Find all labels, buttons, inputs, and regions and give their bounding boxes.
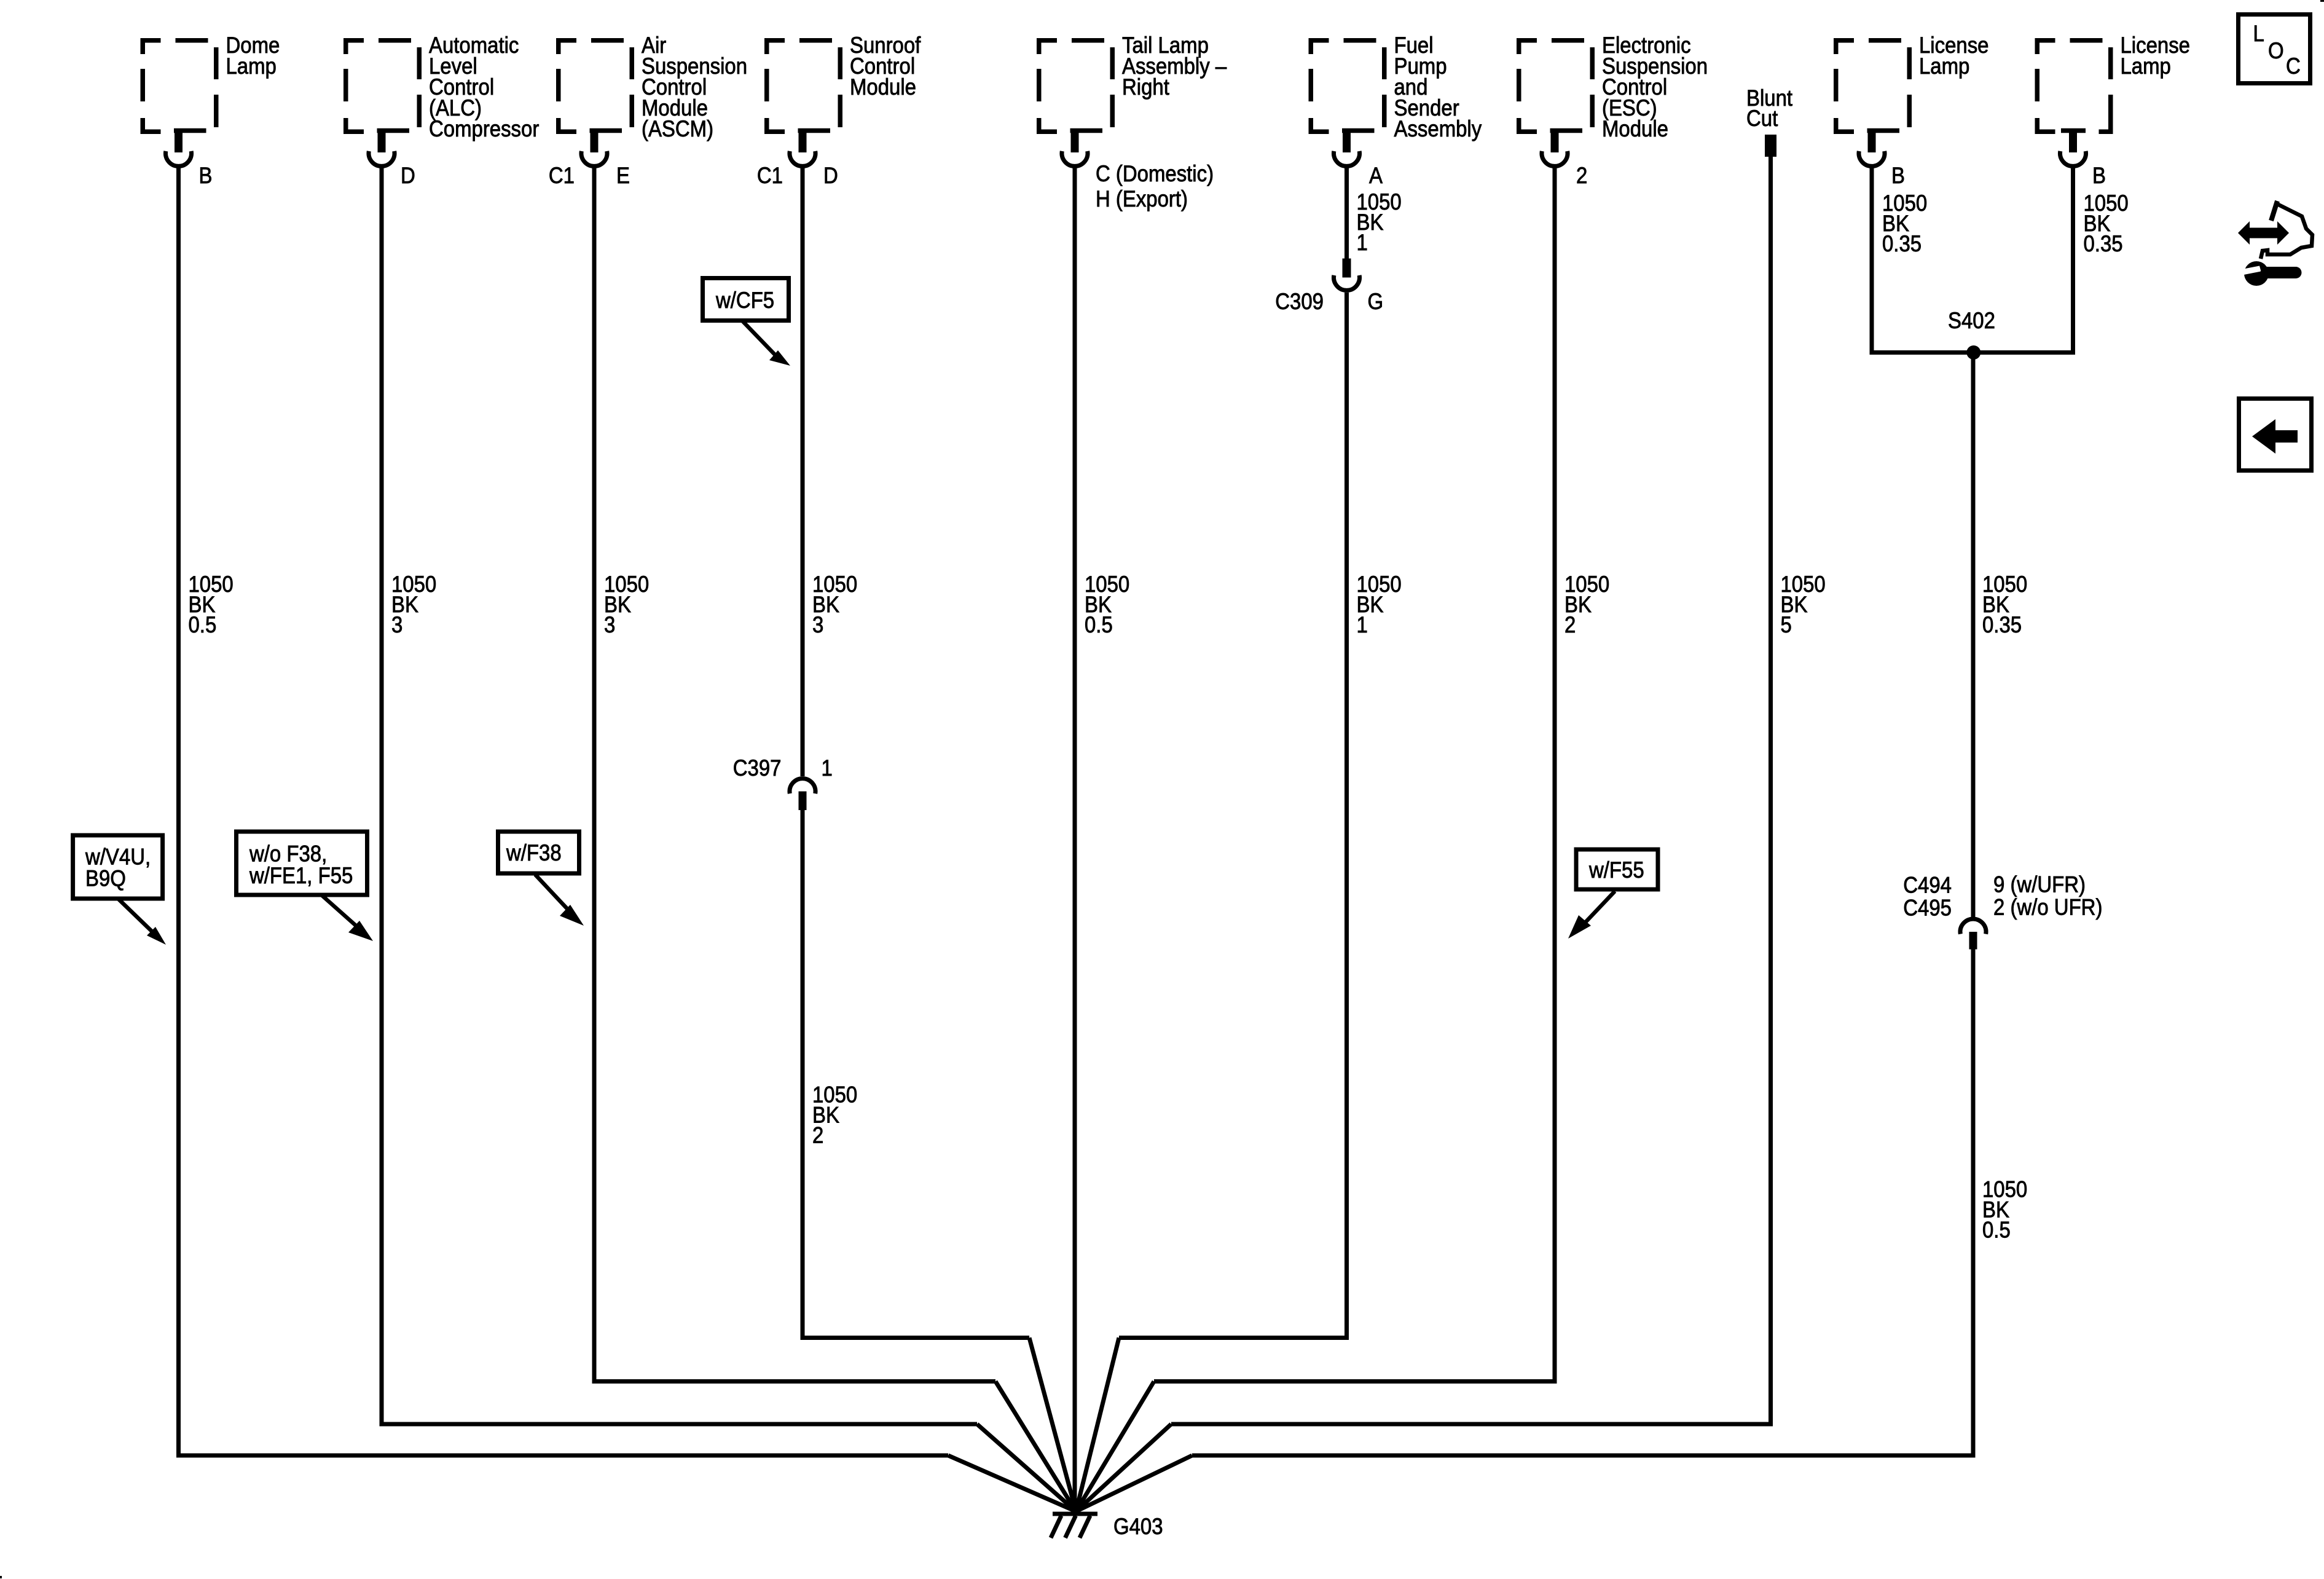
svg-text:2: 2 — [1564, 612, 1576, 637]
svg-text:C495: C495 — [1903, 896, 1952, 921]
svg-text:2: 2 — [812, 1123, 823, 1148]
svg-text:B: B — [1891, 163, 1905, 188]
component box Dome Lamp — [143, 33, 280, 132]
wire 1050 BK 2 from ESC Module to G403 — [1076, 167, 1609, 1511]
svg-text:C397: C397 — [733, 755, 782, 781]
svg-text:1: 1 — [1357, 612, 1368, 637]
wire 1050 BK 3 from ALC Compressor to G403 — [380, 167, 1077, 1511]
wire 1050 BK 1 from C309 to G403 — [1076, 293, 1402, 1511]
wire 1050 BK 3 from ASCM to G403 — [592, 167, 1077, 1511]
inline connector C397 pin 1 — [733, 755, 833, 810]
svg-text:G: G — [1368, 289, 1384, 314]
svg-text:Lamp: Lamp — [2121, 53, 2171, 79]
component box Tail Lamp Assembly - Right — [1039, 33, 1227, 132]
svg-text:C309: C309 — [1275, 289, 1324, 314]
svg-text:0.5: 0.5 — [189, 612, 217, 637]
svg-text:B: B — [199, 163, 213, 188]
svg-text:S402: S402 — [1948, 308, 1995, 333]
svg-text:w/F38: w/F38 — [506, 840, 562, 865]
connector pin D of ALC Compressor — [369, 128, 415, 188]
svg-text:2 (w/o UFR): 2 (w/o UFR) — [1993, 895, 2102, 920]
legend icon back arrow box — [2239, 399, 2312, 471]
svg-text:C1: C1 — [549, 163, 575, 188]
svg-text:D: D — [823, 163, 838, 188]
svg-text:C494: C494 — [1903, 873, 1952, 898]
svg-text:2: 2 — [1576, 163, 1587, 188]
svg-text:C: C — [2286, 53, 2301, 79]
wire 1050 BK 0.5 from Dome Lamp to G403 — [176, 167, 1076, 1511]
svg-text:A: A — [1369, 163, 1383, 188]
svg-text:Module: Module — [1602, 116, 1668, 141]
svg-text:1: 1 — [822, 755, 833, 781]
svg-text:9 (w/UFR): 9 (w/UFR) — [1993, 872, 2086, 897]
wire 1050 BK 0.35 from License Lamp (left) to S402 — [1872, 167, 1927, 355]
component box Electronic Suspension Control (ESC) Module — [1519, 33, 1708, 141]
svg-text:0.5: 0.5 — [1982, 1218, 2011, 1243]
svg-text:0.35: 0.35 — [1882, 231, 1922, 256]
svg-text:3: 3 — [391, 612, 402, 637]
component box Automatic Level Control (ALC) Compressor — [346, 33, 540, 141]
option flag w/F38 — [498, 832, 584, 926]
svg-text:0.35: 0.35 — [2084, 231, 2123, 256]
svg-text:0.5: 0.5 — [1085, 612, 1113, 637]
svg-text:Cut: Cut — [1746, 106, 1778, 131]
component box Air Suspension Control Module (ASCM) — [559, 33, 747, 141]
connector pin B of Dome Lamp — [166, 128, 213, 188]
svg-text:1: 1 — [1357, 230, 1368, 255]
connector C1 pin D of Sunroof Control Module — [757, 128, 838, 188]
svg-text:G403: G403 — [1113, 1514, 1163, 1539]
svg-text:Right: Right — [1122, 74, 1169, 100]
wire 1050 BK 1 from Fuel Pump to C309 — [1347, 167, 1402, 259]
option flag w/F55 — [1568, 849, 1658, 939]
connector pin A of Fuel Pump and Sender Assembly — [1334, 128, 1383, 188]
svg-text:Lamp: Lamp — [1919, 53, 1969, 79]
svg-text:B: B — [2092, 163, 2106, 188]
component box License Lamp (right) — [2037, 33, 2190, 132]
svg-text:B9Q: B9Q — [85, 866, 126, 891]
option flag w/V4U, B9Q — [73, 835, 166, 945]
svg-text:0.35: 0.35 — [1982, 612, 2022, 637]
legend icon body repair (double arrow, panel outline, wrench) — [2238, 201, 2312, 286]
svg-text:C1: C1 — [757, 163, 783, 188]
svg-text:E: E — [616, 163, 630, 188]
inline connector C494/C495 pin 9 (w/UFR) / 2 (w/o UFR) — [1903, 872, 2102, 950]
svg-text:D: D — [401, 163, 415, 188]
svg-text:L: L — [2253, 21, 2264, 46]
svg-text:H (Export): H (Export) — [1096, 186, 1188, 211]
connector C1 pin E of ASCM — [549, 128, 630, 188]
svg-text:Module: Module — [850, 74, 916, 100]
option flag w/o F38, w/FE1, F55 — [237, 832, 374, 941]
svg-text:Compressor: Compressor — [429, 116, 540, 141]
legend icon LOC box — [2239, 15, 2310, 84]
wire 1050 BK 5 from blunt cut to G403 — [1076, 157, 1826, 1511]
splice S402 — [1870, 308, 2076, 360]
option flag w/CF5 — [703, 278, 791, 366]
connector pin B of License Lamp (right) — [2060, 128, 2106, 188]
wire 1050 BK 0.35 from License Lamp (right) to S402 — [2073, 167, 2129, 355]
wire 1050 BK 2 from C397 to G403 — [801, 810, 1077, 1511]
svg-text:Assembly: Assembly — [1394, 116, 1482, 141]
ground G403 — [1051, 1514, 1163, 1539]
svg-text:3: 3 — [604, 612, 615, 637]
connector pin 2 of ESC Module — [1542, 128, 1587, 188]
blunt cut terminal — [1746, 85, 1792, 157]
connector pin B of License Lamp (left) — [1859, 128, 1905, 188]
component box License Lamp (left) — [1836, 33, 1989, 132]
wire 1050 BK 3 from Sunroof Control Module to C397 — [803, 167, 857, 776]
wire 1050 BK 0.5 from C494/C495 to G403 — [1076, 950, 2027, 1512]
component box Sunroof Control Module — [767, 33, 921, 132]
svg-text:w/CF5: w/CF5 — [715, 288, 774, 313]
svg-text:Lamp: Lamp — [226, 53, 277, 79]
svg-text:5: 5 — [1781, 612, 1792, 637]
connector pin C (Domestic) / H (Export) of Tail Lamp Assembly — [1062, 128, 1214, 211]
svg-text:w/FE1, F55: w/FE1, F55 — [249, 863, 353, 888]
svg-text:O: O — [2268, 38, 2284, 63]
svg-text:3: 3 — [812, 612, 823, 637]
svg-text:C (Domestic): C (Domestic) — [1096, 161, 1214, 186]
inline connector C309 pin G — [1275, 259, 1383, 315]
svg-text:w/F55: w/F55 — [1588, 857, 1644, 883]
wire 1050 BK 0.5 from Tail Lamp Assembly to G403 — [1075, 167, 1129, 1510]
component box Fuel Pump and Sender Assembly — [1311, 33, 1482, 141]
wire 1050 BK 0.35 from S402 to C494/C495 — [1973, 353, 2027, 918]
svg-text:(ASCM): (ASCM) — [642, 116, 713, 141]
